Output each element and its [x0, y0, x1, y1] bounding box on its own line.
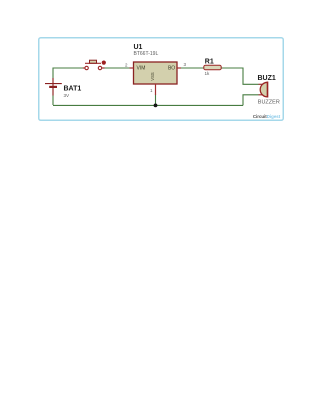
wire bottom rail	[53, 104, 243, 106]
svg-text:BO: BO	[168, 66, 175, 72]
wire button to U1 pin 2	[102, 67, 130, 69]
svg-text:1k: 1k	[205, 71, 211, 76]
wire top-left from battery to button	[53, 68, 84, 105]
svg-text:BUZZER: BUZZER	[258, 100, 280, 106]
svg-text:CircuitDigest: CircuitDigest	[253, 114, 281, 119]
buzzer BUZ1	[259, 82, 268, 98]
svg-text:BAT1: BAT1	[64, 86, 82, 93]
svg-text:3V: 3V	[64, 93, 71, 98]
svg-text:VSS: VSS	[150, 72, 155, 81]
wire bottom to buzzer bottom pin	[243, 95, 259, 106]
resistor R1	[204, 65, 221, 70]
wire U1 pin 3 to R1	[181, 67, 204, 69]
battery BAT1	[45, 78, 62, 96]
svg-text:U1: U1	[134, 44, 143, 51]
wire U1 pin 1 to bottom rail	[155, 95, 157, 106]
svg-text:BUZ1: BUZ1	[258, 75, 276, 82]
wire R1 to buzzer top pin	[221, 68, 258, 84]
node junction bottom rail	[154, 104, 158, 108]
op-amp U1 body	[130, 62, 182, 95]
svg-text:R1: R1	[205, 59, 214, 66]
svg-text:BT66T-19L: BT66T-19L	[134, 51, 159, 57]
schematic frame	[39, 38, 284, 121]
pushbutton switch	[83, 60, 106, 70]
svg-text:VIM: VIM	[137, 66, 146, 72]
